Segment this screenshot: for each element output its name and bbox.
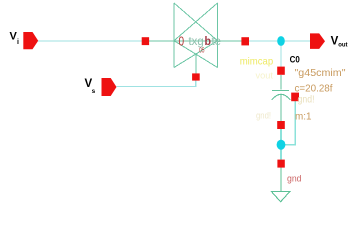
svg-text:b: b (205, 34, 212, 48)
svg-text:m:1: m:1 (295, 111, 312, 123)
svg-text:0: 0 (179, 34, 185, 49)
svg-text:mimcap: mimcap (240, 56, 274, 68)
svg-text:out: out (338, 43, 347, 49)
svg-text:C0: C0 (290, 54, 300, 64)
svg-text:gnd: gnd (287, 174, 302, 185)
svg-text:i: i (17, 39, 19, 46)
svg-text:te: te (212, 34, 222, 48)
svg-text:gnd!: gnd! (298, 95, 315, 106)
svg-text:vout: vout (256, 71, 274, 81)
svg-text:s: s (92, 88, 96, 95)
svg-text:05: 05 (199, 46, 204, 55)
svg-text:"g45cmim": "g45cmim" (295, 67, 346, 79)
svg-text:c=20.28f: c=20.28f (295, 83, 333, 95)
svg-text:gnd!: gnd! (256, 110, 271, 120)
